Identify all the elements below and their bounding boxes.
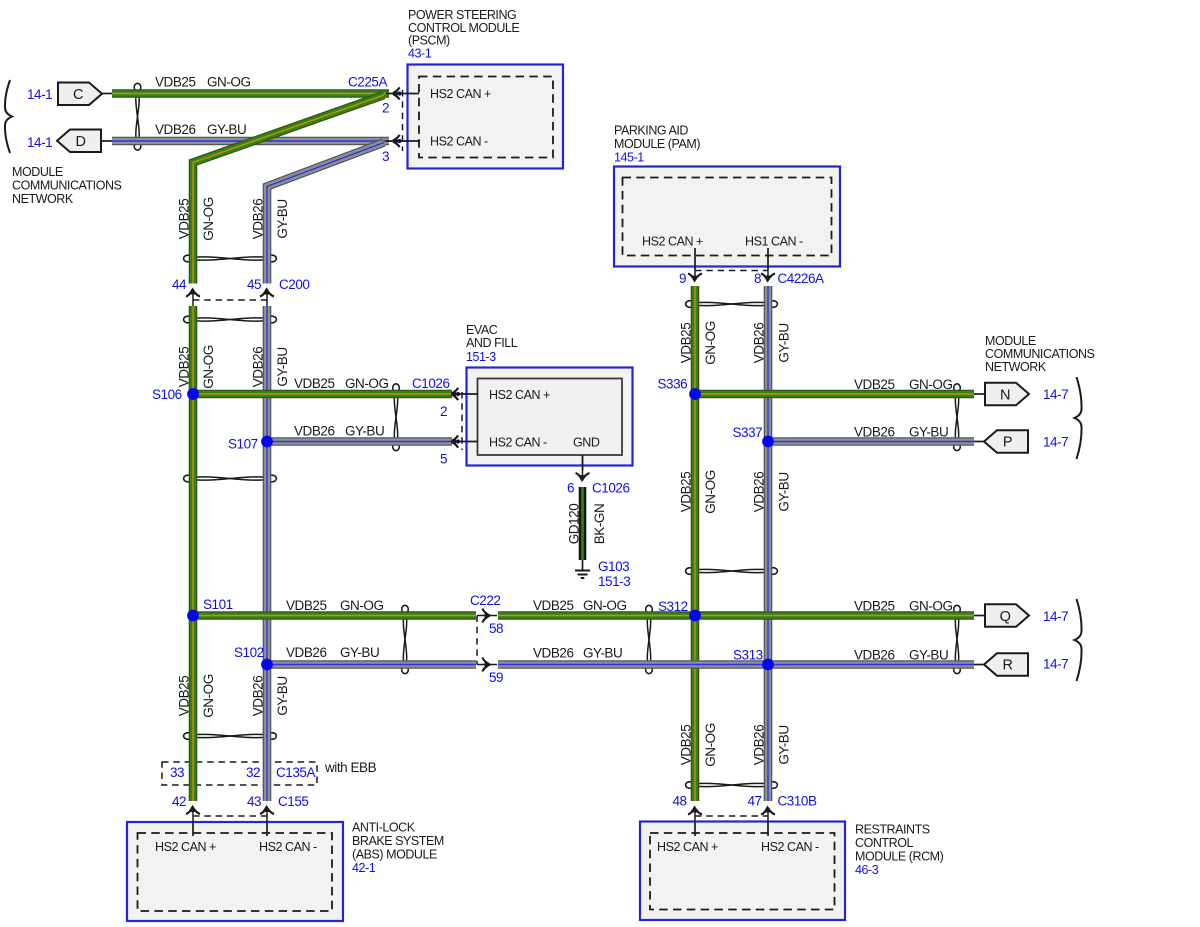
svg-text:C4226A: C4226A	[778, 271, 825, 286]
svg-text:HS2 CAN +: HS2 CAN +	[642, 235, 703, 249]
svg-text:VDB25: VDB25	[678, 725, 693, 766]
svg-text:3: 3	[382, 149, 389, 164]
svg-text:GY-BU: GY-BU	[909, 648, 948, 663]
svg-text:GN-OG: GN-OG	[583, 598, 627, 613]
svg-text:2: 2	[382, 101, 389, 116]
svg-text:D: D	[75, 134, 85, 150]
svg-text:MODULE: MODULE	[12, 165, 63, 179]
svg-text:GY-BU: GY-BU	[207, 122, 246, 137]
svg-text:VDB26: VDB26	[155, 122, 196, 137]
svg-text:BRAKE SYSTEM: BRAKE SYSTEM	[352, 834, 444, 848]
svg-text:NETWORK: NETWORK	[985, 360, 1047, 374]
svg-text:VDB26: VDB26	[751, 323, 766, 364]
svg-text:S101: S101	[203, 597, 233, 612]
svg-text:33: 33	[170, 765, 184, 780]
svg-text:S107: S107	[228, 437, 258, 452]
svg-text:S336: S336	[658, 377, 688, 392]
svg-text:43: 43	[247, 794, 261, 809]
svg-text:8: 8	[754, 271, 761, 286]
svg-text:P: P	[1003, 435, 1012, 451]
svg-text:GN-OG: GN-OG	[703, 723, 718, 767]
svg-text:GY-BU: GY-BU	[345, 424, 384, 439]
svg-text:VDB25: VDB25	[854, 377, 895, 392]
svg-text:C225A: C225A	[348, 75, 387, 90]
svg-text:14-7: 14-7	[1043, 609, 1068, 624]
svg-text:HS2 CAN +: HS2 CAN +	[155, 840, 216, 854]
svg-text:R: R	[1002, 658, 1012, 674]
svg-text:GN-OG: GN-OG	[201, 674, 216, 718]
svg-text:9: 9	[679, 271, 686, 286]
svg-text:C310B: C310B	[778, 794, 817, 809]
svg-text:GY-BU: GY-BU	[909, 425, 948, 440]
svg-text:44: 44	[172, 277, 187, 292]
svg-text:VDB26: VDB26	[294, 424, 335, 439]
svg-text:VDB26: VDB26	[286, 645, 327, 660]
svg-text:GN-OG: GN-OG	[207, 75, 251, 90]
svg-text:43-1: 43-1	[408, 46, 432, 60]
svg-text:GY-BU: GY-BU	[275, 347, 290, 386]
svg-text:VDB25: VDB25	[286, 598, 327, 613]
svg-text:MODULE (PAM): MODULE (PAM)	[614, 137, 700, 151]
svg-text:VDB25: VDB25	[533, 598, 574, 613]
svg-text:VDB26: VDB26	[751, 472, 766, 513]
svg-text:COMMUNICATIONS: COMMUNICATIONS	[12, 179, 122, 193]
svg-text:C200: C200	[279, 277, 309, 292]
svg-text:2: 2	[440, 404, 447, 419]
svg-text:14-7: 14-7	[1043, 387, 1068, 402]
svg-text:42: 42	[172, 794, 186, 809]
svg-text:AND FILL: AND FILL	[466, 336, 518, 350]
svg-text:N: N	[1000, 387, 1010, 403]
svg-text:VDB26: VDB26	[533, 646, 574, 661]
svg-text:151-3: 151-3	[598, 574, 630, 589]
svg-text:C155: C155	[278, 794, 308, 809]
svg-text:GND: GND	[573, 436, 600, 450]
svg-text:G103: G103	[598, 559, 629, 574]
svg-text:ANTI-LOCK: ANTI-LOCK	[352, 821, 416, 835]
svg-text:CONTROL: CONTROL	[855, 836, 913, 850]
svg-text:S106: S106	[152, 387, 182, 402]
svg-text:145-1: 145-1	[614, 151, 644, 165]
svg-text:6: 6	[567, 481, 574, 496]
svg-text:C1026: C1026	[592, 481, 630, 496]
svg-text:14-1: 14-1	[27, 87, 52, 102]
svg-text:VDB25: VDB25	[294, 376, 335, 391]
svg-text:with EBB: with EBB	[324, 760, 377, 775]
svg-text:HS2 CAN +: HS2 CAN +	[657, 840, 718, 854]
svg-text:C222: C222	[470, 593, 500, 608]
svg-text:HS2 CAN -: HS2 CAN -	[259, 840, 317, 854]
svg-text:GY-BU: GY-BU	[776, 472, 791, 511]
svg-text:47: 47	[748, 794, 762, 809]
svg-text:VDB25: VDB25	[854, 599, 895, 614]
svg-text:GN-OG: GN-OG	[909, 599, 953, 614]
svg-text:48: 48	[673, 794, 687, 809]
svg-text:HS2 CAN +: HS2 CAN +	[489, 388, 550, 402]
svg-text:14-7: 14-7	[1043, 435, 1068, 450]
svg-text:VDB25: VDB25	[176, 347, 191, 388]
svg-text:GY-BU: GY-BU	[340, 645, 379, 660]
svg-text:VDB26: VDB26	[854, 648, 895, 663]
svg-text:46-3: 46-3	[855, 863, 879, 877]
svg-text:MODULE (RCM): MODULE (RCM)	[855, 850, 944, 864]
svg-text:COMMUNICATIONS: COMMUNICATIONS	[985, 347, 1095, 361]
svg-text:S102: S102	[234, 645, 264, 660]
svg-text:S337: S337	[733, 425, 763, 440]
svg-text:RESTRAINTS: RESTRAINTS	[855, 823, 930, 837]
svg-text:C1026: C1026	[412, 376, 450, 391]
svg-text:VDB26: VDB26	[250, 676, 265, 717]
svg-text:S312: S312	[658, 599, 688, 614]
svg-text:VDB25: VDB25	[678, 323, 693, 364]
svg-text:58: 58	[489, 621, 503, 636]
svg-text:HS2 CAN -: HS2 CAN -	[430, 135, 488, 149]
svg-text:GN-OG: GN-OG	[201, 345, 216, 389]
svg-text:BK-GN: BK-GN	[592, 504, 607, 545]
svg-text:GN-OG: GN-OG	[340, 598, 384, 613]
svg-text:45: 45	[247, 277, 261, 292]
svg-text:HS2 CAN +: HS2 CAN +	[430, 87, 491, 101]
svg-text:S313: S313	[733, 648, 763, 663]
svg-text:VDB26: VDB26	[751, 725, 766, 766]
svg-text:GD120: GD120	[566, 504, 581, 545]
svg-text:GY-BU: GY-BU	[583, 646, 622, 661]
svg-text:151-3: 151-3	[466, 350, 496, 364]
svg-text:GN-OG: GN-OG	[201, 197, 216, 241]
svg-text:VDB26: VDB26	[854, 425, 895, 440]
svg-text:5: 5	[440, 452, 447, 467]
svg-text:VDB26: VDB26	[250, 199, 265, 240]
svg-text:HS2 CAN -: HS2 CAN -	[489, 436, 547, 450]
svg-text:32: 32	[246, 765, 260, 780]
svg-text:GN-OG: GN-OG	[703, 470, 718, 514]
svg-text:VDB25: VDB25	[678, 472, 693, 513]
svg-text:VDB26: VDB26	[250, 347, 265, 388]
svg-text:GY-BU: GY-BU	[275, 676, 290, 715]
svg-text:(ABS) MODULE: (ABS) MODULE	[352, 848, 437, 862]
svg-text:GN-OG: GN-OG	[703, 321, 718, 365]
svg-text:GY-BU: GY-BU	[275, 199, 290, 238]
svg-text:HS1 CAN -: HS1 CAN -	[745, 235, 803, 249]
svg-text:GY-BU: GY-BU	[776, 725, 791, 764]
svg-text:VDB25: VDB25	[155, 75, 196, 90]
svg-text:VDB25: VDB25	[176, 676, 191, 717]
svg-text:C: C	[73, 87, 83, 103]
svg-text:C135A: C135A	[276, 765, 315, 780]
svg-text:42-1: 42-1	[352, 861, 376, 875]
svg-text:14-1: 14-1	[27, 135, 52, 150]
svg-text:59: 59	[489, 670, 503, 685]
svg-text:14-7: 14-7	[1043, 657, 1068, 672]
svg-text:NETWORK: NETWORK	[12, 192, 74, 206]
svg-text:PARKING AID: PARKING AID	[614, 124, 688, 138]
svg-text:EVAC: EVAC	[466, 323, 498, 337]
svg-text:VDB25: VDB25	[176, 199, 191, 240]
svg-text:Q: Q	[1000, 609, 1011, 625]
svg-text:HS2 CAN -: HS2 CAN -	[761, 840, 819, 854]
svg-text:GN-OG: GN-OG	[345, 376, 389, 391]
svg-text:GY-BU: GY-BU	[776, 323, 791, 362]
svg-text:MODULE: MODULE	[985, 334, 1036, 348]
svg-text:GN-OG: GN-OG	[909, 377, 953, 392]
